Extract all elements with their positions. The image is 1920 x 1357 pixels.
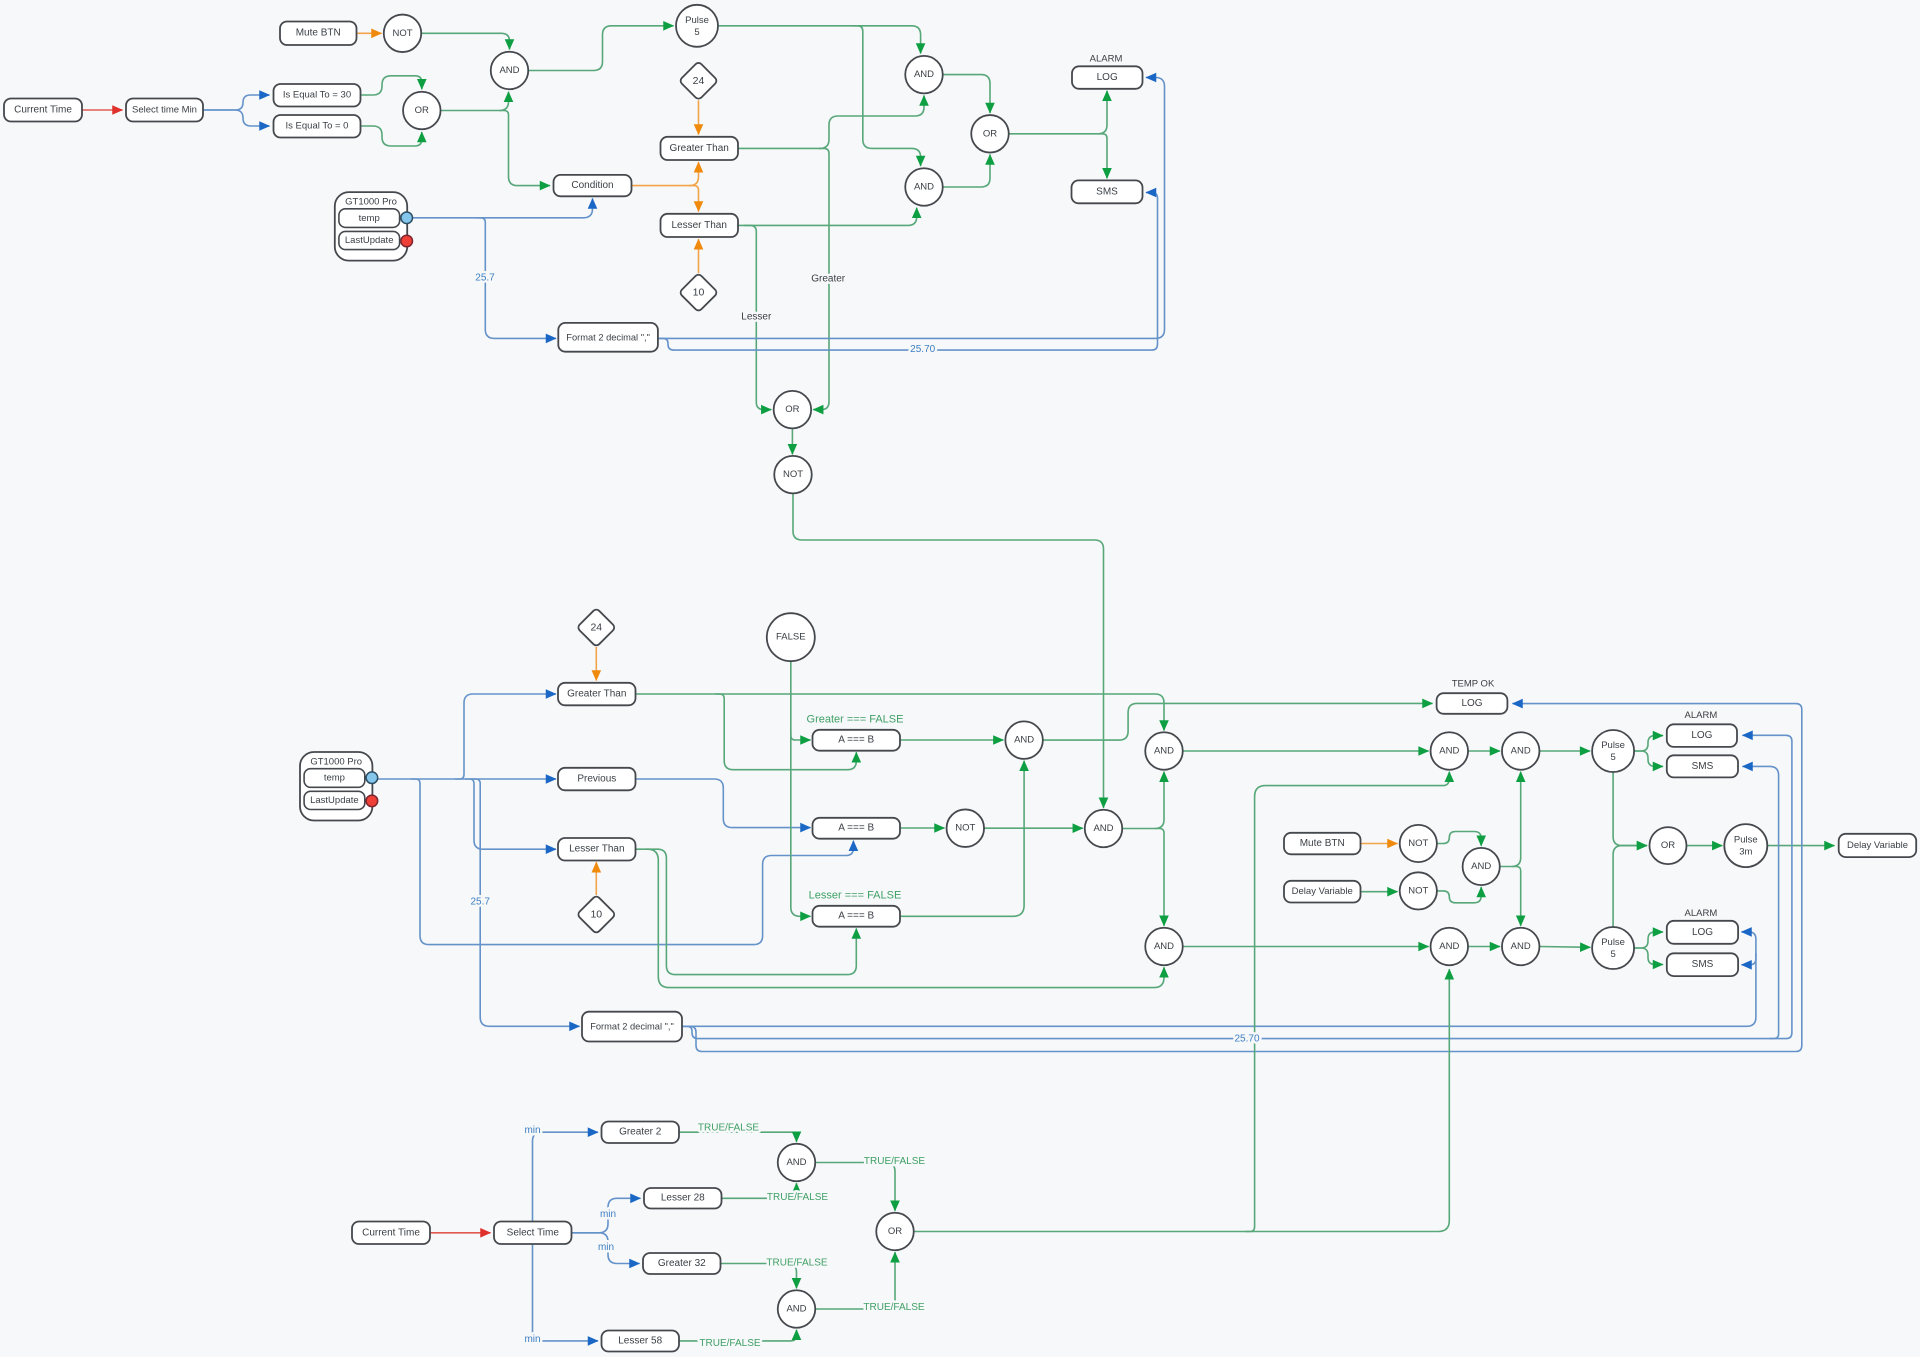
node AND compare bbox=[1005, 721, 1043, 759]
wire Greater Than up to AND upper bbox=[738, 96, 924, 149]
wire Current Time to Select time Min bbox=[82, 109, 123, 111]
wire Format mid to ALARM low bbox=[682, 932, 1756, 1026]
node Current Time bbox=[4, 99, 82, 122]
svg-text:Pulse: Pulse bbox=[1601, 740, 1625, 751]
node Delay Variable right bbox=[1839, 834, 1917, 857]
svg-text:Lesser 28: Lesser 28 bbox=[661, 1193, 705, 1204]
wire Select Time to Greater 32 bbox=[572, 1233, 640, 1264]
svg-text:LOG: LOG bbox=[1097, 72, 1118, 83]
node 10 mid bbox=[577, 895, 616, 934]
svg-text:10: 10 bbox=[590, 909, 602, 921]
svg-text:TRUE/FALSE: TRUE/FALSE bbox=[863, 1302, 924, 1313]
wire OR to Condition bbox=[500, 111, 551, 186]
svg-text:LastUpdate: LastUpdate bbox=[345, 235, 394, 246]
wire temp mid to Greater Than mid bbox=[455, 694, 556, 779]
node AND row2 b bbox=[1431, 928, 1469, 966]
wire OR bottom to AND lowrow bbox=[914, 969, 1450, 1231]
svg-text:AND: AND bbox=[1093, 823, 1113, 834]
wire AND mid fork down bbox=[1155, 829, 1164, 926]
wire Format 2 decimal to LOG bbox=[658, 78, 1165, 339]
node Lesser Than mid bbox=[558, 838, 636, 861]
wire A eq B 2 to NOT bbox=[900, 827, 945, 829]
svg-text:AND: AND bbox=[1439, 941, 1459, 952]
wire temp to Format 2 decimal bbox=[476, 218, 556, 339]
node NOT mute bbox=[1400, 825, 1437, 862]
wire 24 to Greater Than mid bbox=[595, 647, 597, 681]
svg-text:Previous: Previous bbox=[577, 774, 616, 785]
wire Mute BTN to NOT mid bbox=[1361, 843, 1398, 845]
node 24 mid bbox=[577, 608, 616, 647]
wire Lesser Than mid to A eq B 3 bbox=[646, 849, 856, 974]
node AND right lower bbox=[905, 168, 943, 206]
node Pulse 5 top bbox=[676, 5, 718, 47]
svg-text:Lesser 58: Lesser 58 bbox=[618, 1336, 662, 1347]
svg-text:5: 5 bbox=[694, 27, 699, 38]
wire Format mid to LOG up bbox=[682, 735, 1792, 1038]
node SMS low bbox=[1667, 953, 1738, 976]
wire Previous to A eq B 2 bbox=[636, 779, 811, 828]
svg-text:Current Time: Current Time bbox=[362, 1227, 420, 1238]
svg-text:ALARM: ALARM bbox=[1685, 710, 1718, 721]
svg-text:SMS: SMS bbox=[1692, 959, 1714, 970]
wire A eq B 3 to AND bbox=[900, 761, 1024, 917]
node Condition bbox=[554, 175, 632, 196]
wire FALSE to A eq B 1 bbox=[791, 731, 811, 740]
wire Format mid to TEMP OK LOG bbox=[682, 704, 1802, 1052]
svg-text:24: 24 bbox=[693, 75, 705, 87]
node GT1000 Pro top bbox=[335, 192, 413, 261]
node NOT mid bbox=[947, 809, 985, 847]
wire AND 2 up to Pulse 5 bbox=[1540, 750, 1591, 752]
node LOG low bbox=[1667, 921, 1738, 944]
node OR pulse bbox=[1650, 827, 1687, 864]
node Lesser 28 bbox=[644, 1188, 722, 1209]
wire Pulse 5 low to LOG bbox=[1634, 932, 1663, 948]
wire Condition to Lesser Than bbox=[689, 186, 699, 212]
svg-text:Greater 32: Greater 32 bbox=[658, 1258, 706, 1269]
node Mute BTN mid bbox=[1284, 833, 1361, 855]
wire Format mid branch to SMS up bbox=[1743, 766, 1779, 1038]
svg-text:min: min bbox=[600, 1209, 616, 1220]
wire Current Time to Select Time bbox=[430, 1232, 491, 1234]
wire Select time Min to Is Equal To = 0 bbox=[203, 110, 270, 126]
node Previous bbox=[558, 768, 636, 791]
wire temp mid to Previous bbox=[378, 778, 556, 780]
wire AND mid fork up bbox=[1122, 772, 1164, 829]
svg-text:Current Time: Current Time bbox=[14, 105, 72, 116]
node Delay Variable left bbox=[1284, 881, 1361, 903]
node NOT top bbox=[384, 15, 422, 53]
wire Format mid branch to SMS low bbox=[1742, 953, 1756, 965]
node AND top bbox=[491, 52, 529, 90]
wire Pulse 5 branch to AND lower bbox=[852, 26, 921, 166]
svg-text:AND: AND bbox=[1154, 746, 1174, 757]
wire AND uprow to AND chain bbox=[1183, 750, 1429, 752]
wire OR to LOG bbox=[1009, 91, 1107, 134]
svg-text:AND: AND bbox=[1154, 941, 1174, 952]
svg-text:A === B: A === B bbox=[838, 735, 874, 746]
wire temp mid to Format 2 decimal mid bbox=[471, 779, 580, 1026]
wire Select Time to Lesser 28 bbox=[572, 1198, 641, 1233]
svg-text:NOT: NOT bbox=[955, 823, 975, 834]
svg-text:Pulse: Pulse bbox=[685, 15, 709, 26]
wire AND chain up to AND 2 bbox=[1468, 750, 1500, 752]
node AND right upper bbox=[905, 56, 943, 94]
node Greater 32 bbox=[643, 1253, 721, 1274]
wire Lesser 28 to AND bbox=[722, 1183, 797, 1198]
svg-text:AND: AND bbox=[1439, 746, 1459, 757]
svg-text:Is Equal To = 0: Is Equal To = 0 bbox=[286, 121, 349, 132]
node LOG top bbox=[1072, 66, 1143, 89]
svg-text:25.70: 25.70 bbox=[910, 344, 935, 355]
node AND mute bbox=[1463, 848, 1500, 885]
node GT1000 Pro mid bbox=[300, 752, 378, 821]
node AND row1 a bbox=[1145, 732, 1183, 770]
wire Lesser Than mid to AND lowrow bbox=[636, 849, 1165, 987]
svg-text:OR: OR bbox=[888, 1226, 902, 1237]
node Pulse 5 up bbox=[1592, 730, 1634, 772]
svg-text:Greater === FALSE: Greater === FALSE bbox=[807, 714, 904, 726]
wire AND 2 low to Pulse 5 bbox=[1540, 946, 1591, 949]
node OR greater lesser bbox=[774, 391, 812, 429]
svg-text:Greater Than: Greater Than bbox=[670, 143, 729, 154]
node SMS top bbox=[1072, 180, 1143, 203]
svg-text:Lesser Than: Lesser Than bbox=[671, 220, 726, 231]
wire NOT to AND bbox=[421, 33, 509, 49]
svg-text:25.7: 25.7 bbox=[470, 897, 490, 908]
svg-text:AND: AND bbox=[786, 1304, 806, 1315]
wire Is Equal To = 0 to OR bbox=[361, 126, 422, 146]
svg-text:SMS: SMS bbox=[1096, 186, 1118, 197]
wire AND mute fork up bbox=[1500, 772, 1521, 867]
wire OR bottom branch to AND uprow bbox=[1245, 772, 1449, 1232]
node Greater 2 bbox=[602, 1122, 680, 1144]
wire Format 2 decimal to SMS bbox=[658, 193, 1158, 351]
wire Select Time to Lesser 58 bbox=[533, 1244, 599, 1341]
wire Pulse 5 up to SMS bbox=[1634, 751, 1663, 766]
node Mute BTN bbox=[280, 22, 357, 46]
svg-text:OR: OR bbox=[1661, 840, 1675, 851]
wire AND upper to OR right bbox=[943, 75, 990, 113]
svg-text:LOG: LOG bbox=[1692, 927, 1713, 938]
svg-text:5: 5 bbox=[1610, 949, 1615, 960]
wire Greater Than down to OR bbox=[813, 148, 829, 409]
node AND row2 a bbox=[1145, 928, 1183, 966]
svg-text:NOT: NOT bbox=[392, 28, 412, 39]
svg-text:3m: 3m bbox=[1739, 847, 1752, 858]
svg-text:Greater: Greater bbox=[811, 273, 846, 284]
wire OR to SMS bbox=[1098, 134, 1107, 179]
node OR bottom bbox=[876, 1213, 914, 1251]
wire Pulse 3m to Delay Variable bbox=[1767, 845, 1834, 847]
node Select Time bbox=[494, 1222, 572, 1245]
svg-text:AND: AND bbox=[1511, 746, 1531, 757]
svg-text:Greater 2: Greater 2 bbox=[619, 1127, 662, 1138]
svg-text:TEMP OK: TEMP OK bbox=[1452, 679, 1495, 690]
svg-text:TRUE/FALSE: TRUE/FALSE bbox=[766, 1258, 827, 1269]
node Format 2 decimal mid bbox=[582, 1012, 682, 1042]
node AND bottom 2 bbox=[778, 1290, 816, 1328]
wire temp to Condition bbox=[412, 199, 592, 218]
svg-text:min: min bbox=[524, 1125, 540, 1136]
wire NOT mute to AND bbox=[1437, 832, 1481, 846]
wire AND lower to OR right bbox=[943, 155, 990, 188]
node Format 2 decimal top bbox=[558, 323, 658, 352]
node Is Equal To = 30 bbox=[274, 84, 361, 107]
node LOG up bbox=[1667, 724, 1737, 747]
node Is Equal To = 0 bbox=[274, 115, 361, 138]
wire AND to TEMP OK LOG bbox=[1043, 703, 1433, 740]
wire AND lowrow to AND chain bbox=[1183, 946, 1429, 948]
wire Condition to Greater Than bbox=[632, 162, 699, 185]
wire Greater Than mid branch to A eq B 1 bbox=[715, 694, 856, 770]
svg-text:OR: OR bbox=[415, 105, 429, 116]
node Greater Than top bbox=[661, 137, 739, 160]
node A eq B 3 bbox=[813, 906, 901, 927]
svg-text:NOT: NOT bbox=[1408, 885, 1428, 896]
wire Delay Variable to NOT mid bbox=[1361, 891, 1398, 893]
svg-text:OR: OR bbox=[785, 404, 799, 415]
svg-text:ALARM: ALARM bbox=[1685, 908, 1718, 919]
svg-text:TRUE/FALSE: TRUE/FALSE bbox=[698, 1123, 759, 1134]
svg-text:LastUpdate: LastUpdate bbox=[310, 795, 359, 806]
svg-text:A === B: A === B bbox=[838, 823, 874, 834]
node Pulse 3m bbox=[1724, 824, 1767, 867]
node Greater Than mid bbox=[558, 683, 636, 706]
wire A eq B 1 to AND bbox=[900, 739, 1003, 741]
node FALSE bbox=[767, 613, 815, 661]
svg-text:Pulse: Pulse bbox=[1734, 835, 1758, 846]
svg-text:Format 2 decimal ",": Format 2 decimal "," bbox=[590, 1022, 674, 1032]
node Lesser Than top bbox=[661, 214, 739, 237]
svg-text:AND: AND bbox=[914, 182, 934, 193]
svg-text:min: min bbox=[598, 1242, 614, 1253]
node AND row1 b bbox=[1431, 732, 1469, 770]
svg-text:Delay Variable: Delay Variable bbox=[1847, 840, 1908, 851]
wire Pulse 5 to AND upper bbox=[718, 26, 921, 54]
wire AND chain low to AND 2 bbox=[1468, 946, 1500, 948]
svg-text:TRUE/FALSE: TRUE/FALSE bbox=[864, 1156, 925, 1167]
svg-text:AND: AND bbox=[1471, 861, 1491, 872]
svg-text:A === B: A === B bbox=[838, 911, 874, 922]
svg-text:LOG: LOG bbox=[1691, 730, 1712, 741]
svg-text:Lesser: Lesser bbox=[741, 312, 772, 323]
svg-text:Format 2 decimal ",": Format 2 decimal "," bbox=[566, 332, 650, 342]
wire NOT delay to AND bbox=[1437, 887, 1481, 903]
svg-text:Delay Variable: Delay Variable bbox=[1292, 886, 1353, 897]
node AND mid bbox=[1085, 810, 1123, 848]
svg-text:temp: temp bbox=[359, 213, 380, 224]
svg-text:Lesser Than: Lesser Than bbox=[569, 844, 624, 855]
svg-text:AND: AND bbox=[914, 69, 934, 80]
wire temp mid to Lesser Than mid bbox=[465, 779, 556, 849]
svg-text:min: min bbox=[524, 1334, 540, 1345]
wire Greater 32 to AND 2 bbox=[721, 1264, 797, 1289]
wire NOT to AND mid bbox=[984, 827, 1083, 829]
svg-text:TRUE/FALSE: TRUE/FALSE bbox=[767, 1192, 828, 1203]
wire OR to AND bbox=[441, 92, 509, 111]
node Select time Min bbox=[126, 99, 203, 122]
svg-text:ALARM: ALARM bbox=[1090, 54, 1123, 65]
wire AND to OR bottom bbox=[815, 1163, 895, 1211]
node AND bottom 1 bbox=[778, 1144, 816, 1182]
wire OR to NOT bbox=[791, 428, 793, 454]
wire Is Equal To = 30 to OR bbox=[361, 76, 422, 95]
svg-text:Lesser === FALSE: Lesser === FALSE bbox=[809, 890, 902, 902]
wire 24 to Greater Than bbox=[698, 100, 700, 134]
wire temp mid to A eq B 2 bbox=[411, 779, 853, 945]
svg-text:5: 5 bbox=[1610, 752, 1615, 763]
wire Select time Min to Is Equal To = 30 bbox=[203, 95, 270, 110]
svg-text:AND: AND bbox=[786, 1157, 806, 1168]
node 24 top bbox=[679, 61, 718, 100]
node TEMP OK LOG bbox=[1437, 693, 1508, 714]
wire FALSE to A eq B 3 bbox=[791, 661, 811, 916]
node Pulse 5 low bbox=[1592, 927, 1634, 969]
node A eq B 2 bbox=[813, 818, 901, 839]
svg-text:SMS: SMS bbox=[1692, 761, 1714, 772]
wire Greater 2 to AND bbox=[679, 1132, 797, 1142]
svg-text:Is Equal To = 30: Is Equal To = 30 bbox=[283, 90, 351, 101]
node OR right bbox=[971, 115, 1009, 153]
wire NOT down to AND mid bbox=[793, 493, 1104, 807]
node SMS up bbox=[1667, 755, 1738, 777]
svg-text:LOG: LOG bbox=[1461, 698, 1482, 709]
wire Pulse 5 up to LOG bbox=[1634, 736, 1663, 751]
wire OR to Pulse 3m bbox=[1687, 845, 1723, 847]
node NOT mid link bbox=[774, 456, 812, 494]
wire AND mute fork down bbox=[1512, 867, 1521, 926]
svg-text:25.70: 25.70 bbox=[1234, 1034, 1259, 1045]
wire Lesser Than to AND lower bbox=[738, 208, 917, 226]
svg-text:GT1000 Pro: GT1000 Pro bbox=[345, 196, 397, 207]
wire Select Time to Greater 2 bbox=[533, 1132, 599, 1221]
svg-text:Mute BTN: Mute BTN bbox=[1300, 838, 1345, 849]
svg-text:Greater Than: Greater Than bbox=[567, 689, 626, 700]
svg-text:Condition: Condition bbox=[571, 180, 613, 191]
wire 10 to Lesser Than mid bbox=[595, 862, 597, 895]
wire Pulse 5 low to SMS bbox=[1634, 948, 1663, 965]
node 10 top bbox=[679, 273, 718, 312]
svg-text:TRUE/FALSE: TRUE/FALSE bbox=[699, 1338, 760, 1349]
wire 10 to Lesser Than bbox=[698, 239, 700, 273]
node AND row1 c bbox=[1502, 732, 1540, 770]
svg-text:24: 24 bbox=[590, 622, 602, 634]
svg-text:10: 10 bbox=[693, 287, 705, 299]
svg-text:OR: OR bbox=[983, 128, 997, 139]
wire Lesser Than down to OR bbox=[744, 225, 771, 409]
svg-text:Select Time: Select Time bbox=[507, 1227, 560, 1238]
wire AND 2 to OR bottom bbox=[815, 1252, 895, 1309]
svg-text:Pulse: Pulse bbox=[1601, 937, 1625, 948]
node NOT delay bbox=[1400, 872, 1437, 909]
svg-text:25.7: 25.7 bbox=[475, 273, 495, 284]
wire Pulse 5 low to OR bbox=[1613, 846, 1647, 927]
node OR top bbox=[403, 92, 441, 130]
svg-text:Mute BTN: Mute BTN bbox=[296, 28, 341, 39]
svg-text:temp: temp bbox=[324, 773, 345, 784]
wire Mute BTN to NOT bbox=[357, 32, 382, 34]
svg-text:AND: AND bbox=[1014, 735, 1034, 746]
wire AND to Pulse 5 bbox=[528, 26, 673, 71]
wire Greater Than mid to AND bbox=[636, 694, 1165, 731]
svg-text:AND: AND bbox=[499, 65, 519, 76]
node AND row2 c bbox=[1502, 928, 1540, 966]
node Current Time bottom bbox=[352, 1222, 430, 1245]
wire Lesser 58 to AND 2 bbox=[679, 1330, 797, 1341]
svg-text:AND: AND bbox=[1511, 941, 1531, 952]
svg-text:NOT: NOT bbox=[783, 469, 803, 480]
wire Pulse 5 up to OR bbox=[1613, 772, 1647, 846]
svg-text:FALSE: FALSE bbox=[776, 632, 806, 643]
svg-text:Select time Min: Select time Min bbox=[132, 105, 197, 116]
svg-text:GT1000 Pro: GT1000 Pro bbox=[310, 756, 362, 767]
node A eq B 1 bbox=[813, 730, 901, 751]
svg-text:NOT: NOT bbox=[1408, 838, 1428, 849]
node Lesser 58 bbox=[602, 1331, 680, 1352]
